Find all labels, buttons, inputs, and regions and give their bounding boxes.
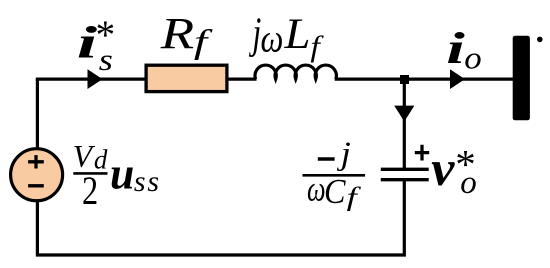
svg-text:s: s xyxy=(99,43,113,77)
svg-text:j: j xyxy=(248,10,261,58)
node junction (filter output node) xyxy=(400,75,409,84)
svg-text:f: f xyxy=(310,29,324,63)
current arrow into capacitor branch xyxy=(394,106,414,122)
svg-text:i: i xyxy=(77,17,97,68)
capacitor Cf (plates) xyxy=(381,169,429,179)
svg-text:R: R xyxy=(160,7,194,57)
wire: resistor Rf to inductor Lf xyxy=(226,77,257,80)
current arrow i_o xyxy=(450,69,465,89)
svg-text:ss: ss xyxy=(134,165,161,198)
svg-text:u: u xyxy=(110,147,134,198)
resistor Rf (body) xyxy=(146,65,227,91)
svg-text:f: f xyxy=(347,182,362,211)
current arrow i_s* xyxy=(88,69,103,89)
voltage source polarity minus xyxy=(28,184,44,187)
voltage source Vd/2*u_ss (circle) xyxy=(11,149,63,201)
capacitor voltage polarity plus xyxy=(415,145,429,161)
wire: source left leg, bottom return, capacitor lower leg xyxy=(37,79,404,255)
value label -j/(&#969;C_f) (capacitor impedance fraction) xyxy=(318,157,335,161)
wire: source top to resistor Rf xyxy=(36,77,147,80)
svg-text:o: o xyxy=(464,41,481,76)
svg-text:j: j xyxy=(337,135,351,172)
svg-text:v: v xyxy=(431,142,455,197)
svg-text:f: f xyxy=(194,22,214,60)
wire: node to capacitor Cf top plate xyxy=(403,79,406,169)
svg-text:ω: ω xyxy=(307,169,326,209)
inductor Lf (coil) xyxy=(255,65,336,79)
output terminal dot xyxy=(537,37,543,43)
wire: inductor Lf to output terminal xyxy=(335,77,514,80)
svg-text:C: C xyxy=(324,173,346,212)
output terminal bar xyxy=(513,36,530,121)
svg-text:ω: ω xyxy=(261,16,284,60)
voltage source polarity plus xyxy=(28,155,44,168)
svg-text:2: 2 xyxy=(82,169,98,213)
svg-text:o: o xyxy=(460,165,477,201)
svg-text:L: L xyxy=(284,10,311,58)
svg-text:i: i xyxy=(446,25,465,73)
